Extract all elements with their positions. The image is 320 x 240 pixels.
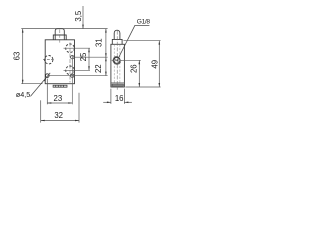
svg-text:25: 25 bbox=[79, 52, 88, 61]
dimension 25 bbox=[88, 48, 90, 70]
node: side plunger dome and stem bbox=[114, 30, 120, 39]
node: front bottom slot band bbox=[53, 85, 67, 87]
node: thread hatch marks bbox=[115, 59, 120, 62]
node: side bottom band bbox=[112, 84, 123, 86]
svg-text:32: 32 bbox=[54, 111, 63, 120]
wire: top extension line at plunger-top level (63 / 3,5 / 31 dims) bbox=[21, 28, 107, 30]
node: side plunger flange bbox=[112, 39, 122, 44]
wire: extension at side body bottom to 26/49 dims bbox=[125, 86, 160, 88]
svg-text:16: 16 bbox=[115, 94, 124, 103]
svg-text:22: 22 bbox=[94, 64, 103, 73]
wire: mid port centerline extension to 25-dim bbox=[64, 69, 91, 71]
wire: front plunger centerline bbox=[59, 30, 61, 44]
svg-text:26: 26 bbox=[129, 64, 138, 73]
node: top-right port dashed circle bbox=[66, 44, 75, 53]
dimension 23 bottom bbox=[47, 79, 72, 105]
dimension 63 left bbox=[21, 29, 42, 84]
wire: G1/8 leader line bbox=[118, 25, 150, 59]
node: G1/8 thread partial arc bbox=[113, 56, 121, 64]
node: left port dashed circle bbox=[45, 56, 53, 64]
node: front plunger flange bbox=[53, 35, 66, 40]
wire: port circle horizontal centerline bbox=[112, 59, 122, 61]
node: upper mounting screw hole bbox=[71, 56, 74, 59]
node: side view body outline bbox=[111, 44, 125, 87]
svg-text:3,5: 3,5 bbox=[74, 10, 83, 22]
svg-text:ø4,5: ø4,5 bbox=[16, 90, 30, 99]
wire: hidden bore dashed lines bbox=[113, 44, 115, 83]
node: mid-right port dashed circle bbox=[66, 66, 75, 75]
wire: extension at side port center to 26-dim bbox=[121, 59, 141, 61]
svg-text:63: 63 bbox=[12, 52, 21, 61]
dimension 26 bbox=[138, 60, 140, 87]
wire: vertical extension from screw holes to 23-dim bbox=[71, 55, 73, 104]
wire: left port centerline ticks bbox=[43, 59, 55, 61]
svg-text:49: 49 bbox=[150, 60, 159, 69]
svg-text:23: 23 bbox=[54, 94, 63, 103]
node: lower-left mounting hole d4,5 bbox=[46, 74, 50, 78]
svg-text:G1/8: G1/8 bbox=[137, 18, 151, 25]
dimension 22 bbox=[105, 57, 107, 75]
node: lower-right mounting screw hole bbox=[71, 74, 74, 77]
node: G1/8 port circle side view bbox=[114, 57, 120, 63]
wire: extension at side flange top to 49-dim bbox=[124, 40, 161, 42]
node: front view body outline bbox=[45, 40, 74, 84]
dimension 31 bbox=[105, 29, 107, 58]
dimension 3,5 top bbox=[82, 6, 84, 29]
wire: extension at lower hole level to 22-dim bbox=[49, 75, 107, 77]
wire: right port vertical centerline bbox=[69, 43, 71, 83]
wire: extension from upper screw hole to 31/22 junction bbox=[74, 56, 107, 58]
svg-text:31: 31 bbox=[94, 38, 103, 47]
wire: top port centerline extension to 25-dim bbox=[64, 47, 91, 49]
leader for d4,5 bbox=[30, 73, 50, 97]
dimension 32 bottom bbox=[41, 93, 79, 123]
wire: side bottom step line bbox=[111, 82, 125, 84]
dimension 49 bbox=[158, 41, 160, 87]
node: front plunger dome and stem bbox=[55, 29, 64, 40]
wire: side vertical centerline bbox=[116, 31, 118, 90]
dimension 16 bottom of side view bbox=[103, 89, 132, 104]
